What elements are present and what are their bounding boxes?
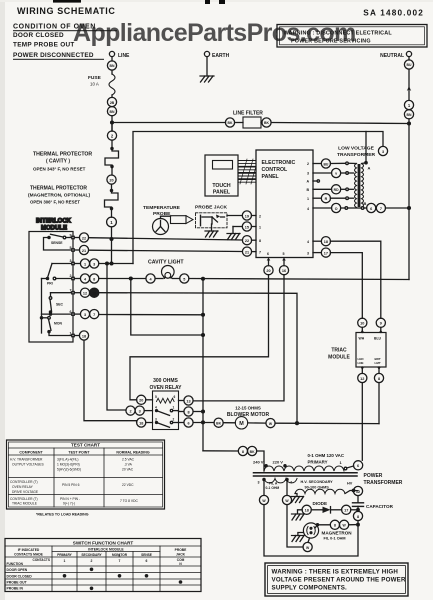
svg-text:TRANSFORMER: TRANSFORMER bbox=[364, 480, 403, 486]
svg-text:BLU: BLU bbox=[374, 337, 382, 341]
wire ECP pin4 O row to B-6-7-neutral bbox=[313, 203, 409, 212]
svg-text:18: 18 bbox=[139, 421, 143, 425]
svg-text:INTERLOCK MODULE: INTERLOCK MODULE bbox=[88, 548, 124, 552]
svg-text:LOW VOLTAGE: LOW VOLTAGE bbox=[338, 146, 374, 152]
wire label 18 relay bottom bbox=[137, 418, 153, 427]
node diode-capacitor bbox=[357, 509, 360, 512]
svg-text:6: 6 bbox=[370, 207, 372, 211]
wire label 1 bbox=[107, 217, 117, 227]
svg-text:12: 12 bbox=[356, 490, 360, 494]
wire line column bbox=[111, 116, 113, 131]
node blower tee bbox=[202, 421, 205, 424]
svg-text:SUPPLY COMPONENTS.: SUPPLY COMPONENTS. bbox=[272, 585, 348, 592]
svg-text:8: 8 bbox=[93, 277, 95, 281]
node relay-2-3 riser bbox=[106, 262, 109, 265]
wire label BU bbox=[404, 60, 413, 69]
wire label 1 bbox=[404, 100, 413, 109]
svg-text:8: 8 bbox=[357, 515, 359, 519]
node 22-row crossing bbox=[110, 238, 113, 241]
wire ECP pin5 stub bbox=[279, 258, 288, 275]
svg-text:5(HV)2)-6(GND): 5(HV)2)-6(GND) bbox=[57, 468, 81, 472]
HV secondary bbox=[295, 480, 355, 494]
fuse F1 10A bbox=[88, 74, 115, 95]
svg-text:20: 20 bbox=[139, 399, 143, 403]
wire label 6 bbox=[179, 418, 194, 427]
svg-text:22 VDC: 22 VDC bbox=[122, 483, 134, 487]
svg-text:PIN 5 PIN 6: PIN 5 PIN 6 bbox=[62, 483, 80, 487]
svg-text:PROBE JACK: PROBE JACK bbox=[195, 205, 228, 211]
wire bbox=[111, 210, 113, 217]
svg-text:21: 21 bbox=[245, 250, 249, 254]
svg-text:2: 2 bbox=[129, 409, 131, 413]
svg-text:WARNING : THERE IS EXTREMELY: WARNING : THERE IS EXTREMELY HIGH bbox=[272, 569, 399, 576]
svg-text:SEC: SEC bbox=[56, 303, 64, 307]
svg-text:300 OHMS: 300 OHMS bbox=[153, 378, 178, 384]
svg-text:15: 15 bbox=[245, 225, 249, 229]
wire label W (fil left) bbox=[259, 481, 358, 557]
svg-text:SWITCH FUNCTION CHART: SWITCH FUNCTION CHART bbox=[73, 541, 134, 546]
svg-text:13: 13 bbox=[186, 399, 190, 403]
svg-text:OVEN RELAY: OVEN RELAY bbox=[12, 485, 34, 489]
svg-text:BN: BN bbox=[110, 110, 115, 114]
svg-text:LMT: LMT bbox=[375, 361, 381, 365]
LINE terminal bbox=[109, 51, 130, 61]
EARTH terminal bbox=[204, 51, 229, 76]
svg-text:NEUTRAL: NEUTRAL bbox=[380, 53, 404, 59]
wire label 9 (triac top right) bbox=[376, 318, 385, 332]
wire line column bbox=[111, 123, 113, 132]
svg-text:M: M bbox=[239, 421, 244, 427]
svg-text:6: 6 bbox=[146, 559, 148, 563]
wire ECP pin3 Y row bbox=[313, 168, 354, 177]
svg-text:MODULE: MODULE bbox=[41, 226, 67, 232]
svg-text:AppliancePartsPros.com: AppliancePartsPros.com bbox=[73, 19, 356, 47]
wire label 8 (capacitor bottom) bbox=[353, 511, 362, 524]
probe jack bbox=[195, 205, 228, 228]
svg-text:LNE: LNE bbox=[358, 361, 364, 365]
svg-text:22: 22 bbox=[82, 236, 86, 240]
svg-text:3(FIL A)-4(FIL): 3(FIL A)-4(FIL) bbox=[57, 458, 79, 462]
svg-text:3: 3 bbox=[93, 262, 95, 266]
LVT winding bbox=[355, 162, 371, 208]
svg-text:6: 6 bbox=[267, 252, 269, 256]
interlock pin 9 bbox=[70, 234, 75, 239]
svg-text:MODULE: MODULE bbox=[328, 355, 350, 361]
wire ECP pin2 BU row bbox=[313, 159, 357, 168]
svg-text:17: 17 bbox=[344, 509, 348, 513]
power transformer label bbox=[364, 473, 403, 486]
wire relay coil feed label 20 bbox=[137, 395, 153, 404]
svg-text:DOOR OPEN: DOOR OPEN bbox=[7, 568, 28, 572]
svg-text:10: 10 bbox=[360, 322, 364, 326]
wire main riser (cavity row to primary feed) bbox=[202, 279, 204, 451]
interlock pin 6 bbox=[70, 310, 75, 315]
svg-text:PRI: PRI bbox=[47, 282, 53, 286]
svg-text:90-100 OHMS: 90-100 OHMS bbox=[305, 486, 330, 490]
svg-text:4: 4 bbox=[290, 481, 292, 485]
node neutral/B-row bbox=[408, 207, 411, 210]
svg-text:5: 5 bbox=[283, 252, 285, 256]
svg-text:CAPACITOR: CAPACITOR bbox=[366, 504, 394, 509]
wire triac left down to primary bbox=[361, 383, 363, 461]
wire 3-7 row (interlock pin6) bbox=[74, 310, 203, 319]
switch SENSE bbox=[44, 234, 72, 250]
node at 1-3 row bbox=[110, 262, 113, 265]
svg-text:SENSE: SENSE bbox=[51, 241, 63, 245]
svg-text:1: 1 bbox=[84, 262, 86, 266]
interlock pin 2 bbox=[70, 274, 75, 280]
svg-text:WH: WH bbox=[359, 337, 365, 341]
wire label BN bbox=[107, 61, 116, 70]
wire label 6 (primary right) bbox=[354, 461, 363, 470]
ground magnetron bbox=[292, 533, 305, 542]
test chart table bbox=[7, 440, 165, 517]
svg-text:8: 8 bbox=[259, 239, 261, 243]
wire riser to LVT terminal A bbox=[365, 132, 367, 162]
svg-text:10 A: 10 A bbox=[90, 82, 99, 87]
svg-text:O: O bbox=[335, 207, 338, 211]
svg-text:PANEL: PANEL bbox=[262, 174, 280, 180]
svg-text:6: 6 bbox=[70, 310, 72, 314]
svg-text:DIODE: DIODE bbox=[313, 501, 328, 506]
svg-text:R: R bbox=[325, 197, 328, 201]
wire 21 row (interlock pin5 to ECP) bbox=[74, 245, 242, 254]
svg-text:PANEL: PANEL bbox=[213, 190, 231, 196]
svg-text:TEST CHART: TEST CHART bbox=[71, 443, 100, 448]
svg-text:12: 12 bbox=[83, 292, 87, 296]
wire labels 2 3 relay bbox=[126, 406, 153, 415]
svg-text:18: 18 bbox=[92, 292, 96, 296]
svg-text:JACK: JACK bbox=[176, 553, 186, 557]
svg-text:22: 22 bbox=[245, 239, 249, 243]
svg-text:5: 5 bbox=[155, 395, 157, 399]
svg-text:2B: 2B bbox=[110, 101, 115, 105]
wire label 22 ecp bbox=[242, 236, 256, 245]
node relay-8 tee bbox=[202, 410, 205, 413]
node line-filter tap bbox=[111, 121, 114, 124]
power transformer T2 bbox=[253, 453, 354, 471]
triac module bbox=[328, 333, 386, 368]
wire ECP pin6 stub bbox=[264, 258, 273, 275]
warning box bottom bbox=[265, 563, 408, 596]
wire ECP pinA stub bbox=[313, 180, 319, 182]
wire ECP pin5 (16) run bbox=[193, 275, 284, 401]
ground probe jack 2 bbox=[227, 227, 240, 240]
wire bbox=[111, 168, 113, 175]
wire 1-3 row (interlock pin3) bbox=[74, 259, 133, 268]
svg-text:TEMP PROBE OUT: TEMP PROBE OUT bbox=[13, 42, 75, 49]
wire label 10 (triac top left) bbox=[358, 318, 367, 332]
ground earth bbox=[200, 76, 214, 82]
svg-text:20: 20 bbox=[266, 269, 270, 273]
wire bbox=[111, 140, 113, 148]
wire bbox=[111, 70, 113, 74]
ground HV secondary bbox=[291, 494, 304, 503]
svg-text:8: 8 bbox=[187, 410, 189, 414]
svg-text:3: 3 bbox=[382, 150, 384, 154]
artifact top bar bbox=[53, 0, 81, 3]
temperature probe bbox=[143, 205, 193, 235]
svg-text:4: 4 bbox=[307, 207, 309, 211]
svg-text:POWER DISCONNECTED: POWER DISCONNECTED bbox=[13, 52, 94, 59]
svg-text:IF INDICATED: IF INDICATED bbox=[18, 548, 40, 552]
svg-text:THERMAL PROTECTOR: THERMAL PROTECTOR bbox=[30, 186, 87, 192]
svg-text:POWER: POWER bbox=[364, 473, 383, 479]
svg-text:3: 3 bbox=[84, 313, 86, 317]
wire 12-18 row (interlock pin7) bbox=[74, 288, 297, 422]
svg-text:SA 1480.002: SA 1480.002 bbox=[363, 9, 424, 18]
svg-text:COMPONENT: COMPONENT bbox=[19, 451, 43, 455]
warning box top bbox=[277, 25, 427, 48]
node 3-7 tee bbox=[202, 313, 205, 316]
wire big loop to low voltage transformer bbox=[133, 132, 383, 264]
NEUTRAL terminal bbox=[380, 51, 411, 60]
svg-text:.3 VA: .3 VA bbox=[124, 463, 133, 467]
wire neutral column bbox=[408, 119, 410, 280]
wire label 2 bbox=[107, 131, 116, 140]
switch SECONDARY bbox=[49, 293, 72, 314]
wire label 8 bbox=[179, 407, 204, 416]
svg-text:LINE: LINE bbox=[118, 53, 130, 59]
wire pin6 row bbox=[42, 313, 72, 315]
svg-text:LINE FILTER: LINE FILTER bbox=[233, 111, 263, 117]
svg-text:2: 2 bbox=[259, 215, 261, 219]
svg-text:TEMPERATURE: TEMPERATURE bbox=[143, 205, 181, 211]
low voltage transformer T1 bbox=[337, 146, 376, 159]
wire ECP pin1 R row bbox=[313, 194, 354, 203]
HEADER-AREA bbox=[13, 0, 424, 60]
svg-text:CONTROL: CONTROL bbox=[262, 167, 288, 173]
svg-text:3: 3 bbox=[70, 259, 72, 263]
svg-text:FIL 0-1 OHM: FIL 0-1 OHM bbox=[324, 537, 346, 541]
svg-text:SECONDARY: SECONDARY bbox=[81, 553, 102, 557]
svg-text:B: B bbox=[364, 201, 367, 206]
svg-text:VOLTAGE PRESENT AROUND THE POW: VOLTAGE PRESENT AROUND THE POWER bbox=[272, 577, 406, 584]
svg-text:EARTH: EARTH bbox=[212, 53, 230, 59]
svg-text:BK: BK bbox=[216, 422, 221, 426]
svg-text:H.V. SECONDARY: H.V. SECONDARY bbox=[301, 480, 334, 484]
ground probe jack 1 bbox=[205, 224, 218, 237]
wire label 13 bbox=[179, 396, 194, 405]
touch panel bbox=[205, 155, 238, 196]
svg-text:DOOR CLOSED: DOOR CLOSED bbox=[7, 575, 33, 579]
svg-text:7: 7 bbox=[119, 559, 121, 563]
svg-text:8: 8 bbox=[378, 377, 380, 381]
svg-text:TRIAC: TRIAC bbox=[331, 348, 347, 354]
svg-text:CONTROLLER (T): CONTROLLER (T) bbox=[10, 480, 38, 484]
interlock pin 3 bbox=[70, 259, 75, 265]
svg-text:18: 18 bbox=[324, 240, 328, 244]
wire label 19 bbox=[227, 211, 256, 220]
svg-text:BN: BN bbox=[110, 64, 115, 68]
node cavity/13riser bbox=[129, 277, 132, 280]
svg-text:3: 3 bbox=[258, 481, 260, 485]
wire triac right down to blower row bbox=[378, 383, 380, 424]
node neutral/filter bbox=[408, 122, 411, 125]
wire 18 row (interlock pin1) bbox=[74, 331, 136, 421]
wire label 2B bbox=[107, 97, 116, 106]
svg-text:A: A bbox=[307, 180, 310, 184]
filament winding bbox=[258, 478, 298, 490]
svg-text:BLOWER MOTOR: BLOWER MOTOR bbox=[227, 412, 270, 418]
INTERLOCK MODULE bbox=[29, 219, 73, 343]
interlock pin 5 bbox=[70, 246, 75, 251]
svg-text:3: 3 bbox=[139, 409, 141, 413]
svg-text:FUSE: FUSE bbox=[88, 75, 102, 81]
svg-text:20 VAC: 20 VAC bbox=[122, 468, 134, 472]
wire label 12 (capacitor top) bbox=[353, 486, 362, 495]
svg-text:TRIAC MODULE: TRIAC MODULE bbox=[12, 502, 38, 506]
svg-text:7: 7 bbox=[380, 207, 382, 211]
svg-text:1: 1 bbox=[173, 406, 175, 410]
svg-text:7: 7 bbox=[259, 251, 261, 255]
svg-text:TOUCH: TOUCH bbox=[212, 183, 231, 189]
svg-text:BK: BK bbox=[228, 121, 233, 125]
svg-text:*RELATES TO LOAD READING: *RELATES TO LOAD READING bbox=[36, 513, 89, 517]
wire label 3 bbox=[378, 146, 387, 155]
svg-text:7 TO 8 VDC: 7 TO 8 VDC bbox=[120, 499, 138, 503]
svg-text:12: 12 bbox=[360, 377, 364, 381]
svg-text:4: 4 bbox=[155, 406, 157, 410]
svg-text:CONTACTS MADE: CONTACTS MADE bbox=[14, 553, 43, 557]
svg-text:B: B bbox=[307, 188, 310, 192]
svg-text:HV: HV bbox=[347, 482, 353, 486]
wire label 20 bbox=[107, 175, 116, 184]
interlock pin 7 bbox=[70, 289, 75, 294]
LINE FILTER bbox=[112, 111, 409, 129]
thermal protector TP2 (magnetron) bbox=[28, 186, 118, 211]
svg-text:BK: BK bbox=[264, 121, 269, 125]
svg-text:16: 16 bbox=[282, 269, 286, 273]
svg-text:6: 6 bbox=[119, 554, 121, 558]
svg-text:21: 21 bbox=[82, 249, 86, 253]
svg-text:5: 5 bbox=[183, 277, 185, 281]
wire cavity row to neutral bbox=[189, 279, 409, 280]
svg-text:INTERLOCK: INTERLOCK bbox=[36, 219, 72, 225]
wire ECP pin3b 17 row to triac bbox=[313, 248, 362, 318]
svg-text:PROBE: PROBE bbox=[175, 548, 188, 552]
svg-text:DOOR CLOSED: DOOR CLOSED bbox=[13, 32, 64, 39]
blower motor B1 bbox=[193, 406, 379, 429]
svg-text:8: 8 bbox=[242, 450, 244, 454]
svg-text:OVEN RELAY: OVEN RELAY bbox=[149, 385, 182, 391]
svg-text:9(+) 7(-): 9(+) 7(-) bbox=[63, 502, 75, 506]
svg-text:WIRING SCHEMATIC: WIRING SCHEMATIC bbox=[17, 6, 115, 16]
svg-text:2: 2 bbox=[307, 162, 309, 166]
wire 2-3 relay feed bbox=[107, 264, 126, 411]
svg-text:1: 1 bbox=[307, 197, 309, 201]
svg-text:PROBE IN: PROBE IN bbox=[7, 587, 24, 591]
svg-text:FUNCTION: FUNCTION bbox=[7, 562, 24, 566]
svg-text:TEST POINT: TEST POINT bbox=[68, 451, 90, 455]
svg-text:FIL A: FIL A bbox=[269, 482, 278, 486]
switch PRIMARY bbox=[42, 264, 72, 286]
svg-text:MON: MON bbox=[54, 322, 62, 326]
wire label BN bbox=[404, 110, 413, 119]
svg-text:6: 6 bbox=[357, 464, 359, 468]
svg-text:2.5 VAC: 2.5 VAC bbox=[122, 458, 135, 462]
wire label 21 ecp bbox=[242, 247, 256, 256]
svg-text:8: 8 bbox=[334, 524, 336, 528]
svg-text:240 V: 240 V bbox=[253, 460, 264, 465]
wire label 8 (triac bottom right) bbox=[374, 367, 383, 383]
wire magnetron top row bbox=[315, 520, 359, 529]
wire bbox=[111, 184, 113, 190]
svg-text:7: 7 bbox=[70, 289, 72, 293]
wire 22 row (interlock pin9 to ECP) bbox=[74, 233, 242, 242]
wire ECP pinB RD row bbox=[313, 185, 354, 194]
svg-text:NORMAL READING: NORMAL READING bbox=[116, 451, 149, 455]
oven relay K1 bbox=[149, 378, 182, 430]
wire label 12 (triac bottom left) bbox=[358, 367, 367, 383]
wire ECP pin4b 18 row to triac bbox=[313, 237, 381, 319]
svg-text:BU: BU bbox=[407, 63, 412, 67]
svg-text:1 MO(3)-6(PRI): 1 MO(3)-6(PRI) bbox=[57, 463, 80, 467]
svg-text:BN: BN bbox=[407, 113, 412, 117]
magnetron V1 bbox=[303, 523, 352, 541]
svg-text:2: 2 bbox=[91, 559, 93, 563]
diode D1 bbox=[298, 501, 359, 514]
svg-text:ELECTRONIC: ELECTRONIC bbox=[262, 160, 296, 166]
svg-text:9: 9 bbox=[380, 322, 382, 326]
svg-text:4: 4 bbox=[307, 240, 309, 244]
cavity light lamp bbox=[146, 260, 189, 284]
wire bbox=[111, 95, 113, 97]
svg-text:TRANSFORMER: TRANSFORMER bbox=[337, 152, 376, 158]
svg-text:PROBE OUT: PROBE OUT bbox=[7, 581, 28, 585]
svg-text:220 V: 220 V bbox=[273, 460, 284, 465]
svg-text:CAVITY LIGHT: CAVITY LIGHT bbox=[148, 260, 184, 266]
svg-text:BU: BU bbox=[323, 162, 328, 166]
capacitor C1 bbox=[353, 496, 394, 512]
svg-text:CONTROLLER (T): CONTROLLER (T) bbox=[10, 497, 38, 501]
svg-text:H.V. TRANSFORMER: H.V. TRANSFORMER bbox=[10, 458, 43, 462]
wire label W (fil right) bbox=[282, 481, 303, 548]
wire line column to interlock row bbox=[111, 227, 113, 264]
svg-text:( CAVITY ): ( CAVITY ) bbox=[46, 159, 70, 165]
svg-text:OPEN 343° F, NO RESET: OPEN 343° F, NO RESET bbox=[33, 167, 86, 172]
wire label 15 bbox=[233, 222, 256, 231]
svg-text:A: A bbox=[368, 166, 371, 171]
wire neutral with arrowhead bbox=[407, 69, 411, 100]
svg-text:1: 1 bbox=[64, 559, 66, 563]
svg-text:PRIMARY: PRIMARY bbox=[57, 553, 72, 557]
svg-text:12-15 OHMS: 12-15 OHMS bbox=[235, 406, 261, 411]
svg-text:OUTPUT VOLTAGES: OUTPUT VOLTAGES bbox=[12, 463, 44, 467]
svg-text:6: 6 bbox=[174, 395, 176, 399]
switch MONITOR bbox=[40, 317, 71, 336]
switch function chart bbox=[5, 539, 201, 592]
node y335 tee bbox=[202, 334, 205, 337]
transformer core bbox=[254, 473, 358, 476]
ribbon cable bbox=[239, 159, 256, 184]
svg-text:(MAGNETRON, OPTIONAL): (MAGNETRON, OPTIONAL) bbox=[28, 193, 90, 199]
svg-text:2: 2 bbox=[173, 418, 175, 422]
svg-text:18: 18 bbox=[82, 334, 86, 338]
svg-text:3: 3 bbox=[307, 252, 309, 256]
wire 8-BK row to transformer primary bbox=[203, 446, 264, 471]
svg-text:DRIVE VOLTAGE: DRIVE VOLTAGE bbox=[12, 490, 39, 494]
svg-text:OPEN 306° F, NO RESET: OPEN 306° F, NO RESET bbox=[30, 200, 80, 205]
svg-text:THERMAL PROTECTOR: THERMAL PROTECTOR bbox=[33, 152, 92, 158]
svg-text:SENSE: SENSE bbox=[141, 553, 152, 557]
electronic control panel U1 bbox=[256, 150, 313, 258]
svg-text:PRIMARY: PRIMARY bbox=[308, 460, 328, 465]
thermal protector TP1 (cavity) bbox=[33, 147, 119, 171]
svg-text:CONTACTS: CONTACTS bbox=[33, 558, 50, 562]
svg-text:RD: RD bbox=[334, 188, 339, 192]
svg-text:6: 6 bbox=[187, 421, 189, 425]
